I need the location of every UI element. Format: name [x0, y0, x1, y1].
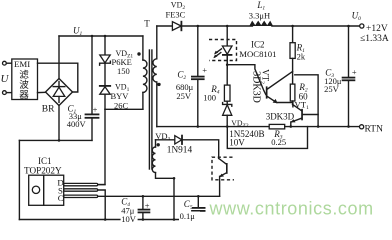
IC2 phototransistor	[219, 158, 227, 164]
LED emission arrows	[216, 49, 222, 53]
svg-text:+: +	[352, 67, 357, 77]
svg-text:+: +	[202, 65, 207, 75]
wire D pin up	[98, 184, 105, 186]
inductor L1 3.3uH	[249, 21, 273, 26]
svg-text:MOC8101: MOC8101	[239, 49, 276, 59]
IC1 pin S	[64, 189, 98, 191]
svg-text:25V: 25V	[176, 91, 192, 101]
wire C pin control rail	[98, 195, 220, 197]
svg-text:BR: BR	[42, 105, 55, 115]
resistor R2 60	[290, 84, 295, 101]
diode VD3 1N914	[156, 139, 175, 141]
wire EMI bottom to bridge left vertex	[38, 91, 46, 93]
svg-text:0.1μ: 0.1μ	[180, 211, 196, 221]
input terminal bottom	[3, 91, 7, 95]
svg-text:波: 波	[19, 79, 29, 91]
svg-text:+: +	[93, 105, 98, 115]
optocoupler IC2 LED	[226, 26, 228, 46]
svg-text:器: 器	[19, 90, 29, 101]
IC1 pin D	[64, 183, 98, 185]
resistor R3 0.25 in line	[269, 124, 285, 128]
resistor R4 100	[226, 56, 228, 86]
svg-text:3DK3D: 3DK3D	[266, 111, 295, 121]
wire bridge top vertex to U1 rail	[58, 36, 60, 79]
output terminal Uo	[360, 24, 364, 28]
svg-text:TOP202Y: TOP202Y	[24, 165, 62, 175]
svg-text:25V: 25V	[324, 84, 340, 94]
svg-text:EMI: EMI	[14, 59, 30, 69]
capacitor C1 33u 400V	[91, 36, 93, 114]
transistor VT2 3DK3D	[266, 86, 268, 98]
callout box 1N5240B / R3	[227, 127, 307, 149]
RTN terminal	[360, 125, 364, 129]
svg-text:U: U	[1, 73, 10, 85]
zener VDZ2 1N5240B	[223, 103, 232, 107]
transistor VT1 3DK3D	[293, 105, 302, 111]
svg-text:滤: 滤	[19, 69, 29, 81]
svg-text:+: +	[145, 201, 150, 211]
svg-text:2k: 2k	[297, 52, 306, 62]
svg-text:10V: 10V	[121, 214, 137, 224]
wire U1 rail	[59, 35, 143, 37]
wire left frame down	[18, 140, 20, 219]
diode VD1 BYV26C	[100, 85, 110, 87]
wire EMI top to bridge right vertex	[38, 63, 78, 92]
svg-text:1N914: 1N914	[167, 145, 193, 155]
bridge rectifier BR diamond	[46, 79, 73, 106]
IC2 dashed box	[209, 40, 237, 61]
phototransistor dashed box	[212, 157, 234, 180]
wire S pin down	[98, 190, 106, 220]
primary winding	[142, 36, 144, 60]
svg-text:C: C	[58, 193, 64, 203]
capacitor C2 680u 25V	[197, 26, 199, 76]
feedback winding	[155, 140, 157, 147]
wire feedback return vertical	[173, 178, 175, 219]
wire secondary return / RTN	[157, 126, 269, 128]
svg-text:FE3C: FE3C	[166, 10, 186, 20]
junction dots	[104, 35, 107, 38]
svg-text:400V: 400V	[67, 119, 87, 129]
svg-text:+12V: +12V	[366, 24, 388, 34]
transformer core	[148, 50, 150, 169]
svg-text:≤1.33A: ≤1.33A	[360, 34, 389, 44]
wire bottom rail	[19, 219, 198, 221]
bridge inner diode	[58, 82, 60, 87]
wire bridge bottom down	[58, 106, 60, 141]
diode VD2 FE3C	[157, 25, 173, 27]
primary phase dot	[137, 52, 140, 55]
node wire LED cathode to VT2 base	[227, 65, 266, 95]
transient suppressor VDZ1 P6KE150	[104, 36, 106, 55]
VT1 label box	[295, 75, 318, 127]
wire negative bus y140	[19, 139, 92, 141]
EMI filter box	[12, 59, 38, 100]
svg-text:IC2: IC2	[251, 39, 265, 49]
feedback phase dot	[157, 143, 160, 146]
wire terminal top to EMI	[6, 62, 11, 64]
wire drain column	[98, 109, 105, 184]
capacitor C5 0.1u	[197, 196, 199, 207]
secondary phase dot	[157, 83, 160, 86]
capacitor C3 120u 25V	[348, 26, 350, 77]
wire clamp to primary bottom	[105, 108, 143, 110]
svg-text:RTN: RTN	[365, 125, 384, 135]
IC1 pin C	[64, 195, 98, 197]
svg-text:T: T	[144, 19, 150, 29]
capacitor C4 47u 10V	[142, 196, 144, 209]
svg-text:100: 100	[203, 93, 216, 103]
svg-text:3DK3D: 3DK3D	[250, 71, 261, 103]
wire terminal bottom to EMI	[6, 92, 11, 94]
IC1 package	[29, 175, 64, 205]
resistor R1 2k	[292, 26, 294, 43]
svg-text:0.25: 0.25	[271, 137, 286, 147]
svg-text:10V: 10V	[229, 138, 245, 148]
svg-text:3.3μH: 3.3μH	[249, 10, 270, 20]
input terminal top	[3, 61, 7, 65]
secondary winding	[156, 26, 158, 59]
svg-text:150: 150	[117, 66, 130, 76]
svg-text:www.cntronics.com: www.cntronics.com	[209, 199, 374, 219]
